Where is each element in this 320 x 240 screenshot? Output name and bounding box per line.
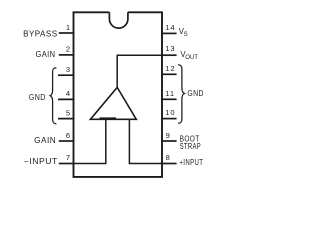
pin 5	[58, 108, 74, 118]
svg-text:2: 2	[66, 45, 70, 54]
pin 12	[161, 64, 177, 74]
pin 6	[59, 131, 75, 141]
pin 7	[59, 153, 75, 164]
pin 9	[161, 131, 177, 141]
wire op-amp output to pin 13 VOUT	[117, 55, 162, 87]
IC pin-1 orientation notch	[109, 12, 128, 28]
pin 10	[161, 108, 177, 119]
pin 14	[161, 23, 177, 33]
svg-text:4: 4	[66, 89, 70, 98]
brace for GND pins 3-5	[50, 68, 56, 124]
label VS (pin 14)	[179, 27, 188, 38]
svg-text:11: 11	[165, 89, 175, 98]
svg-text:−INPUT: −INPUT	[24, 157, 58, 166]
svg-text:1: 1	[66, 23, 70, 32]
pin 2	[59, 45, 75, 55]
pin 13	[161, 44, 177, 55]
svg-text:S: S	[184, 32, 188, 38]
pin 11	[161, 89, 177, 99]
svg-text:14: 14	[165, 23, 175, 32]
svg-text:+INPUT: +INPUT	[179, 158, 203, 167]
IC U1 body outline (14-pin DIP)	[74, 12, 163, 177]
label VOUT (pin 13)	[180, 50, 198, 61]
svg-text:BYPASS: BYPASS	[23, 29, 58, 38]
pin 1	[59, 23, 75, 33]
wire pin 8 +INPUT to op-amp non-inverting input	[129, 119, 162, 163]
svg-text:12: 12	[165, 64, 175, 73]
brace for GND pins 12-10	[178, 65, 184, 124]
svg-text:GAIN: GAIN	[34, 136, 56, 145]
svg-text:6: 6	[66, 131, 70, 140]
svg-text:OUT: OUT	[185, 55, 198, 61]
svg-text:GND: GND	[187, 89, 204, 98]
svg-text:8: 8	[166, 153, 170, 162]
op-amp amplifier triangle	[90, 87, 136, 119]
svg-text:GND: GND	[29, 93, 46, 102]
svg-text:GAIN: GAIN	[36, 50, 56, 59]
pin 8	[161, 153, 177, 164]
pin 4	[58, 89, 74, 99]
wire pin 7 -INPUT to op-amp inverting input	[74, 119, 106, 163]
svg-text:3: 3	[66, 65, 70, 74]
label BOOT STRAP (pin 9)	[180, 135, 202, 151]
svg-text:9: 9	[166, 131, 170, 140]
svg-text:5: 5	[66, 108, 70, 117]
svg-text:10: 10	[165, 108, 175, 117]
svg-text:13: 13	[165, 44, 175, 53]
svg-text:STRAP: STRAP	[180, 142, 202, 151]
svg-text:7: 7	[66, 153, 70, 162]
pin 3	[58, 65, 74, 75]
